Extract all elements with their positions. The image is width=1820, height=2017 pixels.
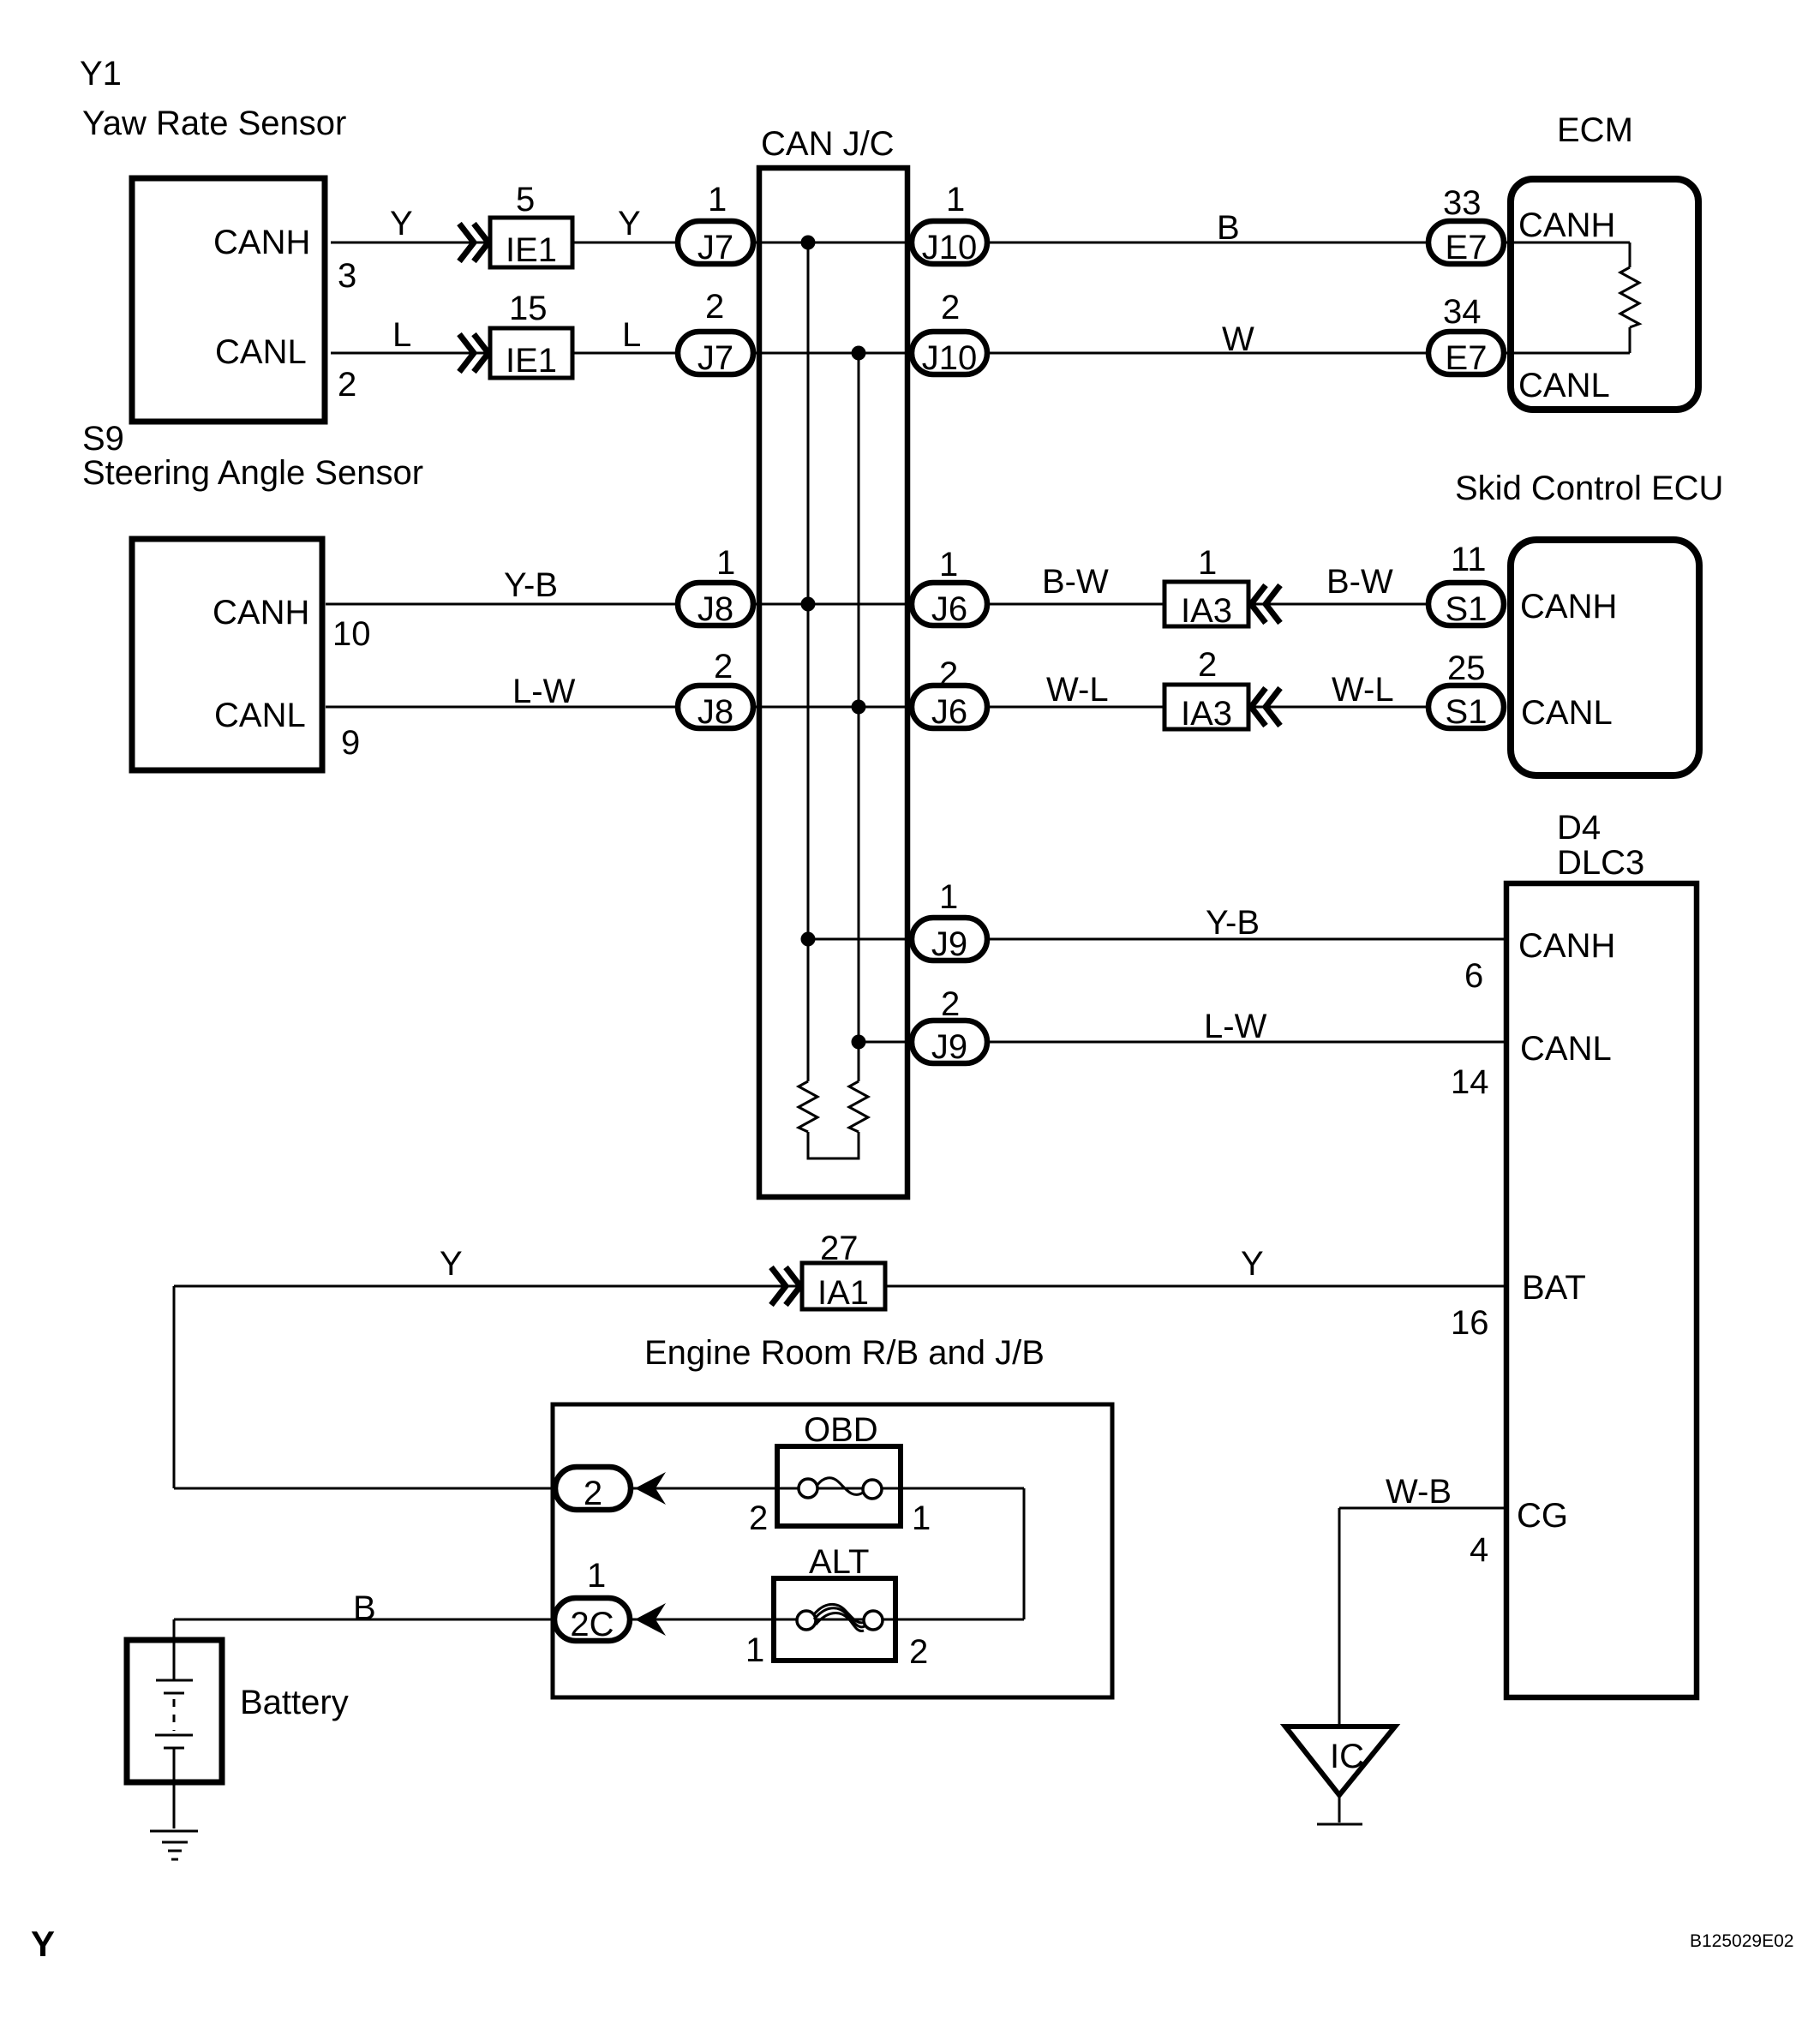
wire W-B: DLC3 CG pin4 to ground IC [1339, 1507, 1506, 1510]
svg-text:1: 1 [912, 1499, 931, 1537]
connector oval J6 pin1 [912, 583, 987, 625]
svg-text:CG: CG [1517, 1497, 1568, 1535]
connector IA3 pin2 box [1164, 685, 1248, 729]
connector IE1 pin15 box [490, 328, 572, 378]
svg-text:2: 2 [1198, 646, 1217, 684]
svg-text:ECM: ECM [1557, 111, 1633, 149]
feed arrow into connector 2C [635, 1603, 666, 1636]
battery box [127, 1640, 222, 1782]
svg-text:IA3: IA3 [1181, 695, 1232, 733]
svg-text:CANL: CANL [215, 333, 307, 371]
svg-text:CANH: CANH [1518, 206, 1615, 244]
connector oval J7 pin1 [678, 221, 753, 264]
svg-text:Steering Angle Sensor: Steering Angle Sensor [82, 454, 423, 492]
svg-text:2: 2 [714, 648, 733, 685]
svg-text:CANH: CANH [213, 224, 310, 261]
steering angle sensor S9 box [132, 539, 322, 770]
wire steering CANL to skid control ECU pin25 (L-W / W-L) [326, 706, 1506, 709]
fuse OBD box [777, 1446, 901, 1526]
svg-text:CANH: CANH [1520, 588, 1617, 625]
splice arrows into IE1 pin15 [459, 334, 474, 372]
svg-text:Y1: Y1 [80, 55, 122, 93]
feed arrow into connector 2 [635, 1472, 666, 1505]
svg-text:CANL: CANL [1518, 367, 1610, 404]
svg-text:B: B [1217, 209, 1240, 247]
splice arrows into IA3 pin2 [1251, 688, 1266, 726]
resistor terminating R1 in CAN J/C [799, 1081, 817, 1132]
svg-text:5: 5 [516, 181, 535, 218]
svg-text:IC: IC [1330, 1738, 1364, 1775]
svg-text:BAT: BAT [1522, 1269, 1586, 1307]
connector oval J9 pin2 [912, 1020, 987, 1063]
svg-text:Y-B: Y-B [1206, 904, 1260, 942]
svg-text:CANH: CANH [213, 594, 309, 631]
node junction dot CANL at bus2 [852, 346, 866, 361]
svg-text:Y: Y [618, 205, 641, 242]
svg-text:1: 1 [939, 546, 958, 584]
svg-text:IA3: IA3 [1181, 592, 1232, 630]
svg-text:J8: J8 [697, 693, 733, 731]
connector oval J8 pin2 [678, 685, 753, 728]
svg-text:CANL: CANL [1521, 694, 1613, 732]
wire J9 pin2 to DLC3 CANL pin14 (L-W) [859, 1041, 1506, 1044]
svg-text:14: 14 [1451, 1063, 1489, 1101]
svg-text:J10: J10 [922, 229, 978, 266]
svg-text:S1: S1 [1446, 693, 1488, 731]
wire CANH net: yaw sensor pin3 to ECM pin33 (Y / B) [331, 242, 1630, 244]
wire CAN J/C internal bus 1 (CANH) [807, 242, 810, 1081]
svg-text:L: L [622, 316, 641, 354]
svg-text:6: 6 [1464, 957, 1483, 995]
wire vertical W-B down to IC triangle [1338, 1508, 1341, 1727]
connector oval J8 pin1 [678, 583, 753, 625]
svg-text:1: 1 [1198, 544, 1217, 582]
svg-text:B-W: B-W [1042, 563, 1109, 601]
svg-text:1: 1 [708, 181, 727, 218]
svg-text:W: W [1222, 320, 1254, 358]
svg-text:34: 34 [1443, 293, 1482, 331]
svg-text:2C: 2C [570, 1606, 614, 1643]
wire into engine room connector 2 and OBD fuse row [174, 1487, 1024, 1490]
svg-text:IE1: IE1 [506, 342, 557, 380]
engine room R/B and J/B box [553, 1404, 1112, 1697]
svg-text:1: 1 [716, 544, 735, 582]
wire B: battery to 2C connector and ALT fuse row [174, 1619, 1024, 1621]
wire vertical link OBD pin1 to ALT pin2 [1023, 1488, 1026, 1619]
wire battery negative lead to ground [173, 1748, 176, 1828]
fuse ALT box [774, 1578, 895, 1661]
ECM box [1511, 179, 1698, 410]
svg-text:L: L [392, 316, 411, 354]
svg-text:OBD: OBD [804, 1411, 878, 1449]
svg-text:Y: Y [1241, 1245, 1264, 1283]
splice arrows into IA3 pin1 [1251, 585, 1266, 623]
svg-text:10: 10 [332, 615, 371, 653]
node junction dot J9-1 at bus1 [801, 932, 816, 947]
connector oval J7 pin2 [678, 332, 753, 374]
svg-text:J10: J10 [922, 339, 978, 377]
svg-text:D4: D4 [1557, 809, 1601, 847]
svg-text:15: 15 [509, 290, 548, 327]
yaw rate sensor Y1 box [132, 178, 325, 422]
svg-text:2: 2 [909, 1633, 928, 1671]
connector oval 2 (engine room) [555, 1467, 631, 1510]
svg-text:9: 9 [341, 724, 360, 762]
svg-text:S1: S1 [1446, 590, 1488, 628]
node junction dot J9-2 at bus2 [852, 1035, 866, 1050]
connector oval E7 pin34 [1428, 332, 1504, 374]
connector IA1 pin27 box [802, 1263, 885, 1309]
DLC3 connector D4 box [1506, 883, 1697, 1697]
svg-text:J7: J7 [697, 229, 733, 266]
CAN J/C junction block box [759, 168, 907, 1197]
wire battery positive lead [173, 1619, 176, 1680]
svg-text:25: 25 [1447, 649, 1486, 687]
wire joining R1/R2 bottoms [808, 1132, 859, 1158]
svg-text:J8: J8 [697, 590, 733, 628]
svg-text:Y-B: Y-B [504, 566, 558, 604]
svg-text:2: 2 [705, 288, 724, 326]
svg-text:2: 2 [941, 289, 960, 326]
svg-text:E7: E7 [1446, 229, 1488, 266]
skid control ECU box [1511, 540, 1699, 775]
svg-text:2: 2 [941, 985, 960, 1023]
svg-text:DLC3: DLC3 [1557, 844, 1644, 882]
svg-text:Engine Room R/B and J/B: Engine Room R/B and J/B [644, 1334, 1045, 1372]
node junction dot CANH at bus1 [801, 236, 816, 250]
svg-text:33: 33 [1443, 184, 1482, 222]
svg-text:S9: S9 [82, 420, 124, 458]
wire vertical drop at left of BAT feed [173, 1286, 176, 1488]
resistor terminating in ECM [1620, 267, 1639, 327]
splice arrows into IA1 pin27 [771, 1267, 786, 1305]
svg-text:J7: J7 [697, 339, 733, 377]
svg-text:Y: Y [31, 1924, 55, 1964]
connector oval S1 pin25 [1428, 685, 1504, 728]
wire BAT: battery feed to DLC3 pin16 (Y) [174, 1285, 1506, 1288]
battery cell symbol [156, 1679, 193, 1682]
svg-text:3: 3 [338, 257, 356, 295]
connector IA3 pin1 box [1164, 582, 1248, 626]
svg-text:16: 16 [1451, 1304, 1489, 1342]
wire ECM terminating resistor bottom lead [1629, 327, 1631, 353]
svg-text:CAN J/C: CAN J/C [761, 125, 895, 163]
svg-text:CANL: CANL [214, 697, 306, 734]
connector oval E7 pin33 [1428, 221, 1504, 264]
svg-text:W-L: W-L [1332, 671, 1394, 709]
svg-text:CANL: CANL [1520, 1030, 1612, 1068]
ground symbol below IC [1317, 1823, 1362, 1826]
svg-text:1: 1 [745, 1631, 764, 1669]
svg-text:Skid Control ECU: Skid Control ECU [1455, 470, 1723, 507]
connector IE1 pin5 box [490, 218, 572, 267]
wire CAN J/C internal bus 2 (CANL) [858, 353, 860, 1081]
svg-text:IE1: IE1 [506, 231, 557, 269]
connector oval J9 pin1 [912, 918, 987, 961]
svg-text:CANH: CANH [1518, 927, 1615, 965]
svg-text:J6: J6 [931, 590, 967, 628]
connector oval J6 pin2 [912, 685, 987, 728]
fuse ALT element [797, 1611, 816, 1630]
node junction dot J8-1 at bus1 [801, 597, 816, 612]
svg-text:2: 2 [749, 1499, 768, 1537]
svg-text:J9: J9 [931, 925, 967, 963]
wire steering CANH to skid control ECU pin11 (Y-B / B-W) [326, 603, 1506, 606]
node junction dot J6-2 at bus2 [852, 700, 866, 715]
ground IC triangle [1285, 1727, 1395, 1795]
wire J9 pin1 to DLC3 CANH pin6 (Y-B) [808, 938, 1506, 941]
svg-text:L-W: L-W [512, 673, 576, 710]
svg-text:W-L: W-L [1046, 671, 1109, 709]
svg-text:L-W: L-W [1204, 1008, 1267, 1045]
svg-text:B-W: B-W [1326, 563, 1393, 601]
svg-text:W-B: W-B [1386, 1473, 1452, 1511]
svg-text:B125029E02: B125029E02 [1690, 1931, 1793, 1951]
svg-text:IA1: IA1 [817, 1274, 869, 1312]
wire below IC triangle [1338, 1795, 1341, 1822]
svg-text:ALT: ALT [809, 1543, 869, 1581]
fuse OBD element [799, 1479, 817, 1498]
svg-text:2: 2 [338, 366, 356, 404]
svg-text:Y: Y [440, 1245, 463, 1283]
svg-text:Yaw Rate Sensor: Yaw Rate Sensor [82, 105, 346, 142]
ground symbol at battery [150, 1830, 198, 1833]
svg-text:E7: E7 [1446, 339, 1488, 377]
svg-text:1: 1 [946, 181, 965, 218]
svg-text:4: 4 [1470, 1531, 1488, 1569]
svg-text:1: 1 [939, 878, 958, 916]
svg-text:Battery: Battery [240, 1684, 349, 1721]
svg-text:2: 2 [584, 1475, 602, 1512]
svg-text:J6: J6 [931, 693, 967, 731]
svg-text:27: 27 [820, 1230, 859, 1267]
splice arrows into IE1 pin5 [459, 224, 474, 261]
svg-text:Y: Y [390, 205, 413, 242]
wire CANL net: yaw sensor pin2 to ECM pin34 (L / W) [331, 352, 1630, 355]
connector oval 2C (engine room) [554, 1598, 630, 1641]
connector oval S1 pin11 [1428, 583, 1504, 625]
svg-text:J9: J9 [931, 1028, 967, 1066]
svg-text:2: 2 [939, 655, 958, 693]
wire ECM terminating resistor top lead [1629, 242, 1631, 267]
svg-text:11: 11 [1451, 541, 1487, 578]
svg-text:B: B [353, 1589, 376, 1627]
connector oval J10 pin1 [912, 221, 987, 264]
connector oval J10 pin2 [912, 332, 987, 374]
svg-text:1: 1 [587, 1557, 606, 1595]
resistor terminating R2 in CAN J/C [849, 1081, 868, 1132]
